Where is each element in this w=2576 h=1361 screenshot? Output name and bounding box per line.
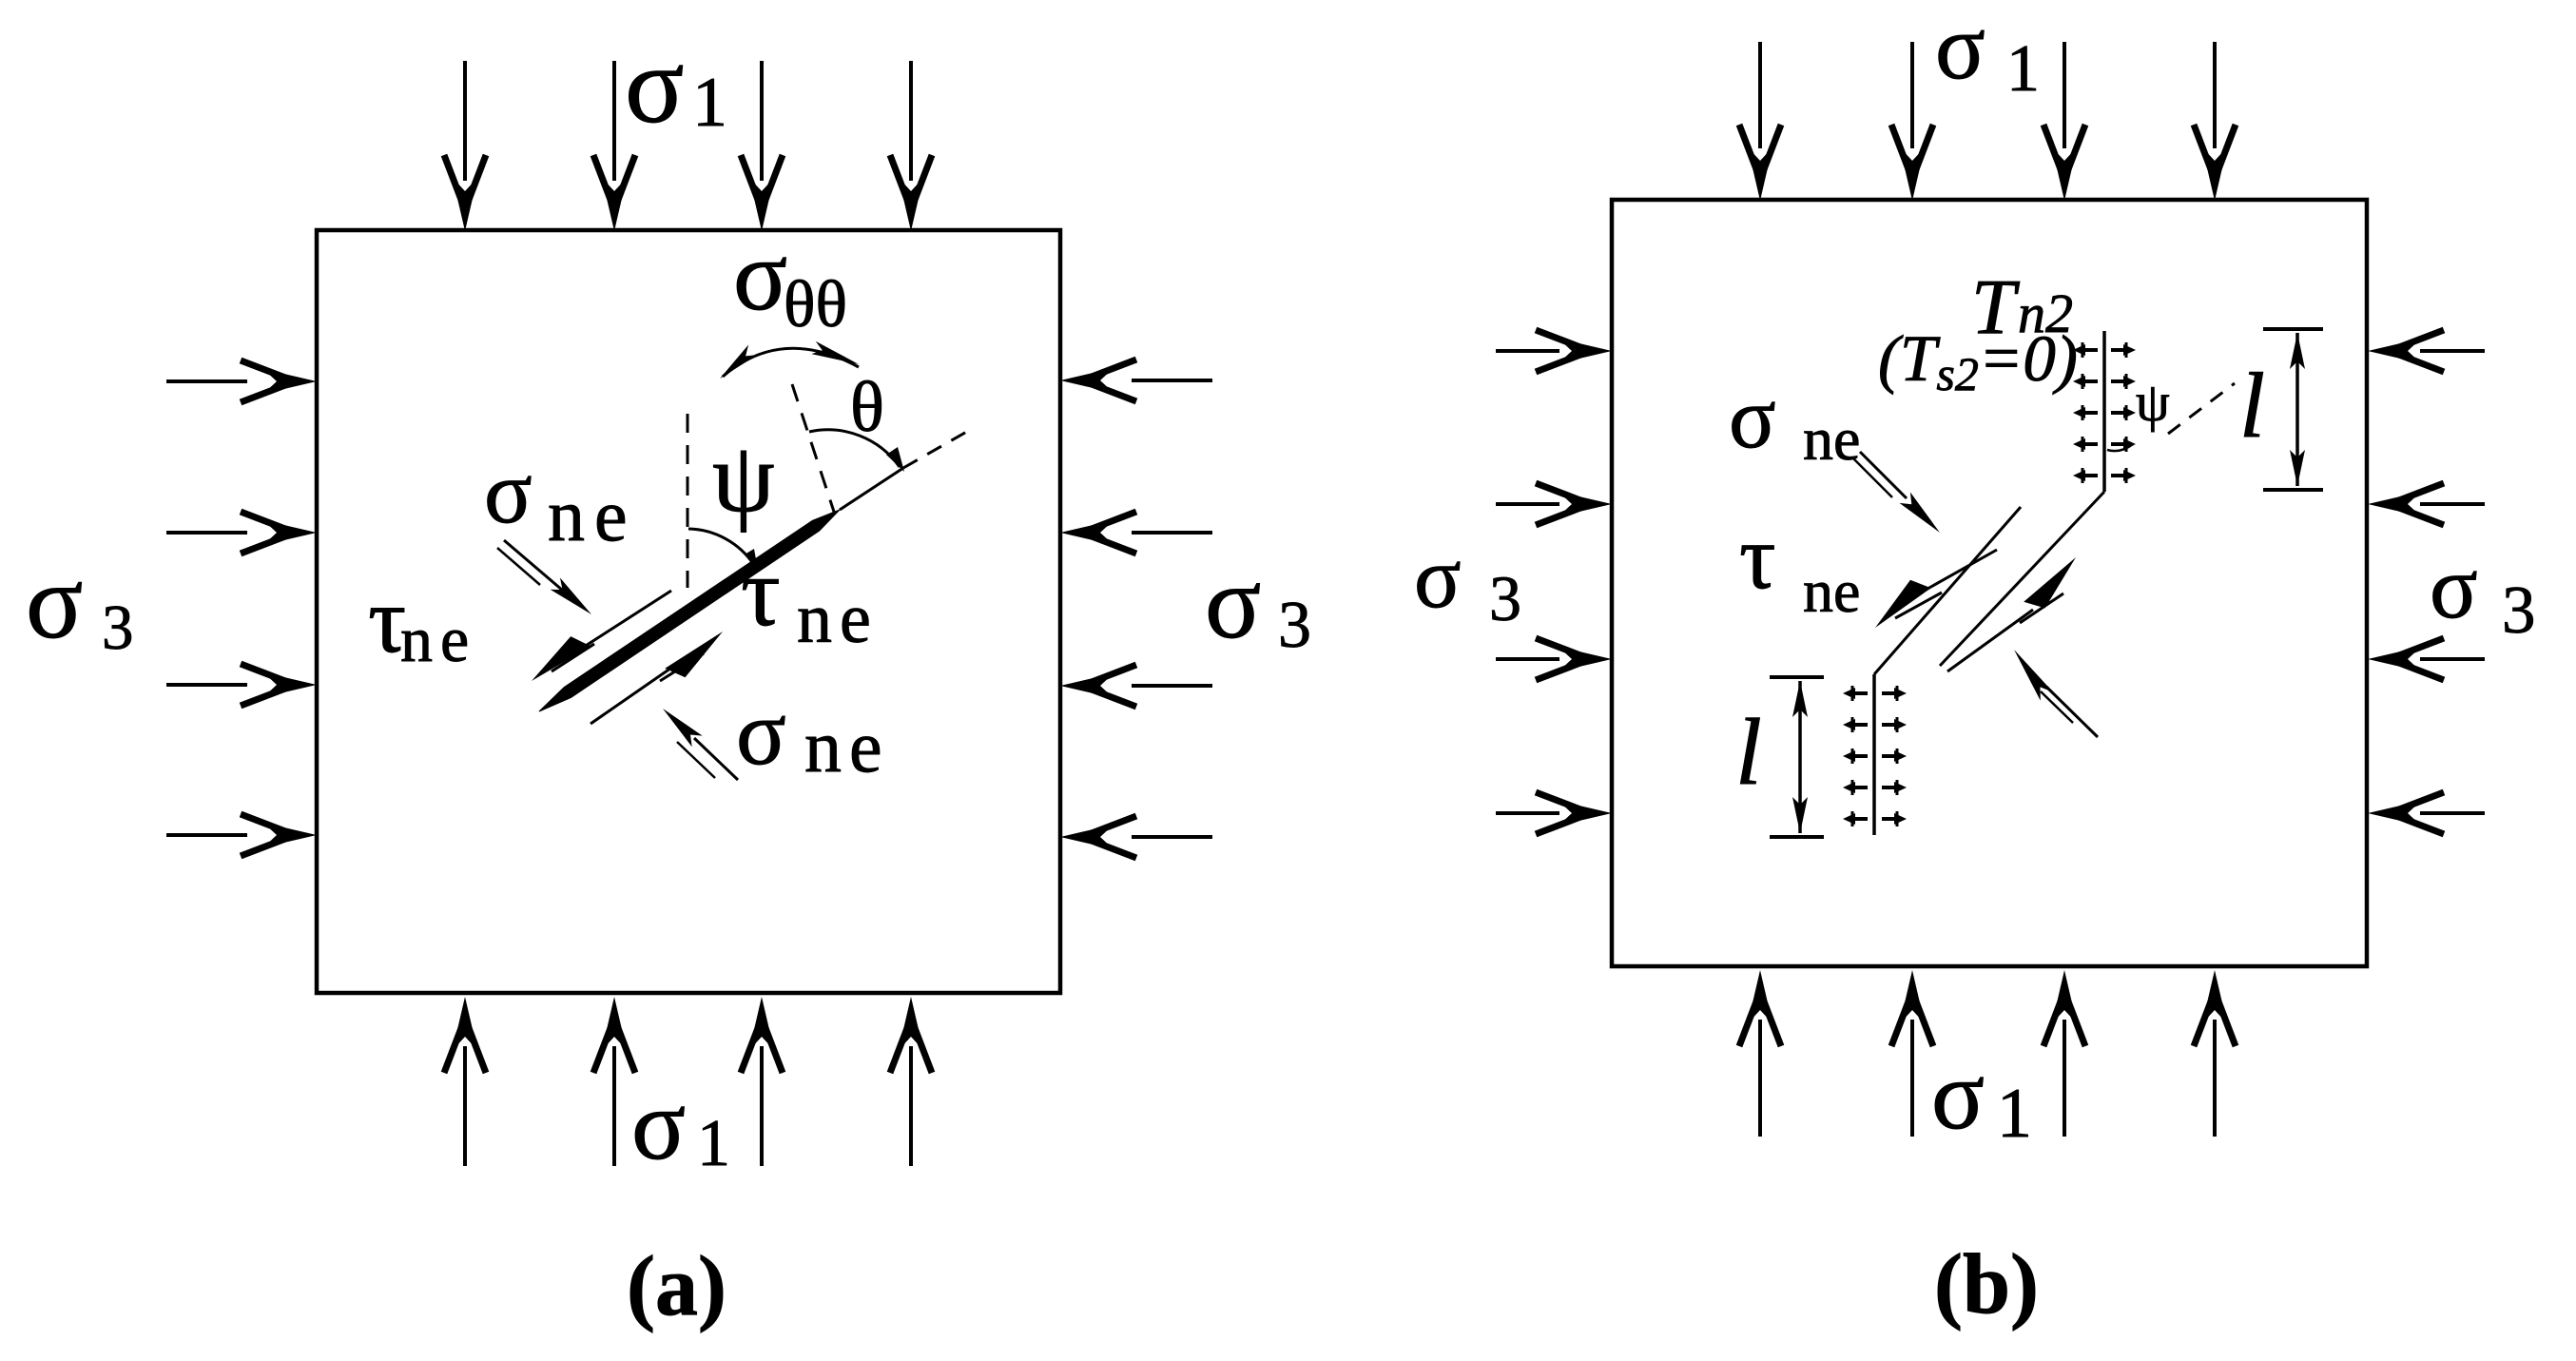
upper l marker arrowhead up	[2290, 333, 2305, 369]
sigma3 left arrows (b)	[1496, 330, 1612, 834]
crack upper-left face (b)	[1874, 507, 2021, 674]
sigma3 right arrows (a)	[1060, 360, 1212, 858]
compression arrow sigma3 left-4 (b)	[1496, 811, 1559, 815]
traction arrow pair lower wing row 5	[1843, 811, 1868, 826]
sigma_ne lower-right arrow (a)	[694, 738, 738, 780]
lower wing crack line (b)	[1872, 674, 1876, 835]
theta arc arrowhead (a)	[886, 447, 904, 472]
svg-text:(b): (b)	[1934, 1237, 2039, 1332]
compression arrow sigma1 top-1 (a)	[463, 61, 467, 181]
svg-text:σ: σ	[1205, 544, 1261, 660]
svg-text:ψ: ψ	[712, 421, 775, 533]
compression arrow sigma1 bottom-2 (a)	[612, 1046, 616, 1166]
svg-text:σ: σ	[631, 1069, 686, 1180]
svg-text:3: 3	[1489, 562, 1521, 634]
traction arrow pair lower wing row 4	[1843, 780, 1868, 795]
compression arrow sigma3 right-2 (a)	[1132, 531, 1212, 535]
svg-text:1: 1	[692, 64, 727, 142]
crack tip extension line solid part (a)	[840, 468, 903, 510]
lower l marker top bar	[1770, 675, 1824, 679]
psi angle arc (b)	[2107, 444, 2133, 451]
psi angle arc (a)	[688, 529, 754, 565]
compression arrow sigma3 left-1 (b)	[1496, 349, 1559, 353]
svg-text:ne: ne	[804, 705, 890, 787]
lower l dimension marker (b)	[1770, 677, 1824, 837]
svg-text:σ: σ	[26, 543, 83, 661]
upper l marker arrow line	[2295, 333, 2299, 486]
compression arrow sigma1 bottom-3 (a)	[760, 1046, 764, 1166]
theta angle arc (a)	[809, 430, 900, 467]
sigma1 bottom arrows (a)	[444, 997, 932, 1166]
svg-text:θθ: θθ	[784, 268, 847, 341]
vertical dashed reference line (a)	[687, 414, 689, 588]
compression arrow sigma3 right-4 (a)	[1132, 835, 1212, 839]
compression arrow sigma3 right-1 (a)	[1132, 379, 1212, 382]
inclined dashed wing line (a)	[792, 384, 834, 512]
tau lower harpoon (b)	[1947, 610, 2033, 671]
tau lower harpoon (a)	[591, 664, 677, 724]
svg-text:σ: σ	[625, 25, 685, 146]
compression arrow sigma1 bottom-4 (b)	[2213, 1020, 2217, 1137]
svg-text:ne: ne	[400, 603, 476, 675]
sigma_ne upper-left arrow (a)	[504, 540, 563, 591]
svg-text:3: 3	[2502, 574, 2536, 648]
traction arrow pair lower wing row 1	[1843, 686, 1868, 701]
psi arc arrowhead (a)	[745, 549, 758, 570]
svg-text:(a): (a)	[627, 1239, 726, 1333]
svg-text:ne: ne	[548, 474, 637, 556]
lower l marker arrowhead down	[1792, 797, 1808, 833]
traction arrow pair upper wing row 2	[2073, 374, 2098, 389]
upper wing crack line (b)	[2102, 331, 2106, 492]
compression arrow sigma1 top-3 (a)	[760, 61, 764, 181]
traction arrow pair lower wing row 2	[1843, 717, 1868, 732]
upper l marker arrowhead down	[2290, 450, 2305, 486]
tau upper harpoon (a)	[578, 591, 671, 651]
svg-text:σ: σ	[733, 220, 787, 331]
traction arrow pair lower wing row 3	[1843, 749, 1868, 764]
crack lower-right face (b)	[1940, 492, 2104, 666]
traction arrow pair upper wing row 3	[2073, 405, 2098, 420]
upper l marker top bar	[2263, 327, 2323, 331]
compression arrow sigma1 top-4 (a)	[909, 61, 913, 181]
svg-text:ne: ne	[797, 580, 879, 658]
compression arrow sigma1 bottom-1 (a)	[463, 1046, 467, 1166]
svg-text:l: l	[1735, 699, 1762, 805]
traction arrow pair upper wing row 4	[2073, 437, 2098, 452]
svg-text:σ: σ	[1931, 1040, 1985, 1150]
svg-text:τ: τ	[741, 537, 781, 647]
crack (a): thick inclined sliver	[539, 510, 840, 711]
compression arrow sigma3 right-4 (b)	[2420, 811, 2485, 815]
lower wing traction arrows (b)	[1843, 686, 1907, 826]
sigma3 right arrows (b)	[2368, 330, 2485, 834]
svg-text:σ: σ	[484, 443, 533, 542]
compression arrow sigma3 left-2 (b)	[1496, 502, 1559, 506]
sigma1 top arrows (a)	[444, 61, 932, 231]
compression arrow sigma1 bottom-4 (a)	[909, 1046, 913, 1166]
svg-text:1: 1	[1997, 1075, 2032, 1153]
svg-text:σ: σ	[2430, 538, 2478, 637]
svg-text:τ: τ	[1739, 506, 1776, 608]
compression arrow sigma3 right-3 (b)	[2420, 657, 2485, 661]
upper l dimension marker (b)	[2263, 329, 2323, 490]
svg-text:l: l	[2239, 355, 2265, 457]
lower l marker arrow line	[1798, 681, 1802, 833]
sigma1 bottom arrows (b)	[1739, 970, 2236, 1137]
compression arrow sigma3 left-4 (a)	[166, 833, 247, 837]
compression arrow sigma1 top-2 (a)	[612, 61, 616, 181]
compression arrow sigma1 top-4 (b)	[2213, 42, 2217, 148]
traction arrow pair upper wing row 5	[2073, 468, 2098, 483]
specimen box (b)	[1612, 200, 2367, 966]
svg-text:(Ts2=0): (Ts2=0)	[1878, 322, 2078, 400]
compression arrow sigma3 left-2 (a)	[166, 531, 247, 535]
compression arrow sigma3 right-3 (a)	[1132, 684, 1212, 688]
svg-text:σ: σ	[1935, 0, 1985, 99]
compression arrow sigma1 bottom-3 (b)	[2063, 1020, 2066, 1137]
svg-text:1: 1	[2006, 32, 2040, 106]
svg-text:3: 3	[102, 593, 134, 663]
compression arrow sigma1 bottom-1 (b)	[1758, 1020, 1762, 1137]
sigma mirror arrow lower-right (b)	[2046, 687, 2098, 737]
upper l marker bottom bar	[2263, 488, 2323, 492]
compression arrow sigma3 right-2 (b)	[2420, 502, 2485, 506]
svg-text:ne: ne	[1803, 405, 1860, 473]
svg-text:σ: σ	[1414, 529, 1462, 626]
compression arrow sigma3 left-3 (b)	[1496, 657, 1559, 661]
lower l marker arrowhead up	[1792, 681, 1808, 717]
compression arrow sigma1 bottom-2 (b)	[1910, 1020, 1914, 1137]
specimen box (a)	[317, 230, 1060, 993]
compression arrow sigma1 top-1 (b)	[1758, 42, 1762, 148]
sigma3 left arrows (a)	[166, 360, 317, 856]
compression arrow sigma3 left-1 (a)	[166, 379, 247, 383]
compression arrow sigma3 right-1 (b)	[2420, 349, 2485, 353]
svg-text:ψ: ψ	[2136, 373, 2170, 433]
sigma-theta-theta curved arrow (a)	[723, 348, 859, 377]
svg-text:σ: σ	[1729, 369, 1776, 466]
dashed extension line (b)	[2168, 383, 2235, 434]
sigma_ne arrow (b)	[1860, 452, 1907, 498]
compression arrow sigma1 top-3 (b)	[2063, 42, 2066, 148]
lower l marker bottom bar	[1770, 835, 1824, 839]
traction arrow pair upper wing row 1	[2073, 342, 2098, 358]
compression arrow sigma1 top-2 (b)	[1910, 42, 1914, 148]
svg-text:σ: σ	[736, 682, 786, 785]
sigma1 top arrows (b)	[1739, 42, 2236, 201]
svg-text:3: 3	[1278, 589, 1311, 662]
svg-text:θ: θ	[850, 368, 884, 447]
upper wing traction arrows (b)	[2073, 342, 2136, 483]
crack tip extension line dashed part (a)	[903, 430, 970, 468]
tau upper harpoon (b)	[1921, 550, 1997, 593]
svg-text:1: 1	[697, 1107, 730, 1180]
compression arrow sigma3 left-3 (a)	[166, 683, 247, 687]
svg-text:ne: ne	[1803, 557, 1860, 625]
